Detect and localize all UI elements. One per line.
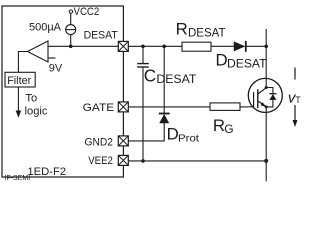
svg-text:500µA: 500µA <box>29 21 62 33</box>
wire comparator input to DESAT pin <box>48 45 118 47</box>
svg-text:C: C <box>144 66 156 86</box>
wire VCC2 to current source <box>70 13 72 24</box>
node junction C_DESAT top <box>141 45 145 49</box>
wire D_Prot branch vertical <box>163 46 165 113</box>
resistor R_G <box>210 103 240 136</box>
svg-text:T: T <box>295 95 301 105</box>
svg-text:D: D <box>167 125 179 144</box>
arrow to logic <box>16 87 48 118</box>
svg-text:logic: logic <box>25 105 48 117</box>
wire R_DESAT to D_DESAT <box>211 45 234 47</box>
svg-text:GND2: GND2 <box>85 136 113 148</box>
svg-text:DESAT: DESAT <box>227 59 267 71</box>
current source 500uA <box>29 21 76 34</box>
svg-text:DESAT: DESAT <box>156 74 196 86</box>
resistor R_DESAT <box>176 20 226 52</box>
svg-text:To: To <box>25 92 37 104</box>
comparator U1 <box>28 41 49 62</box>
svg-text:R: R <box>176 20 188 39</box>
diode D_DESAT <box>216 41 267 71</box>
node junction emitter / VEE2 rail <box>264 159 268 163</box>
voltage arrow v_T <box>288 68 301 128</box>
IC boundary box 1ED-F2 <box>2 6 123 177</box>
VEE2 pin label <box>88 155 113 167</box>
watermark <box>5 175 31 182</box>
GND2 pin box <box>118 136 128 146</box>
emitter wire down <box>265 112 267 181</box>
DESAT pin box <box>118 41 128 51</box>
wire current source to DESAT node <box>70 35 72 47</box>
Filter block <box>5 72 35 87</box>
node junction at comparator input <box>69 45 73 49</box>
svg-text:VEE2: VEE2 <box>88 155 113 167</box>
svg-text:D: D <box>216 50 228 69</box>
GATE pin box <box>118 102 128 112</box>
capacitor C_DESAT wire upper <box>142 46 144 63</box>
svg-text:DESAT: DESAT <box>188 28 226 40</box>
capacitor C_DESAT <box>137 64 196 87</box>
svg-text:GATE: GATE <box>83 102 115 114</box>
GATE pin label <box>83 102 115 114</box>
svg-text:Prot: Prot <box>178 133 199 145</box>
svg-text:9V: 9V <box>49 62 63 74</box>
wire DESAT pin to R_DESAT <box>128 45 182 47</box>
svg-text:DESAT: DESAT <box>84 29 118 41</box>
capacitor C_DESAT wire lower to VEE2 rail <box>142 68 144 161</box>
svg-text:G: G <box>224 122 233 136</box>
IGBT Q1 with freewheel diode <box>248 78 282 112</box>
wire D_Prot to GND2 wire <box>128 123 164 141</box>
label 1ED-F2 <box>27 166 66 178</box>
wire GATE pin to R_G <box>128 106 210 108</box>
DESAT pin label <box>84 29 118 41</box>
VEE2 rail wire <box>128 160 266 162</box>
diode D_Prot (zener to GND2) <box>159 114 199 145</box>
GND2 pin label <box>85 136 113 148</box>
svg-text:1ED-F2: 1ED-F2 <box>27 166 66 178</box>
collector wire top <box>265 29 267 79</box>
wire R_G to IGBT gate <box>240 106 249 108</box>
svg-text:Filter: Filter <box>7 75 31 87</box>
node junction D_Prot top <box>162 45 166 49</box>
VCC2 terminal <box>69 6 99 18</box>
svg-text:IF-SEMI: IF-SEMI <box>5 175 31 182</box>
9V reference stub <box>48 58 63 74</box>
svg-text:VCC2: VCC2 <box>74 6 100 18</box>
node junction C_DESAT bottom <box>141 159 145 163</box>
VEE2 pin box <box>118 155 128 165</box>
wire D_DESAT to collector line <box>247 45 267 47</box>
node junction collector <box>264 45 268 49</box>
wire comparator output to Filter <box>18 52 27 73</box>
